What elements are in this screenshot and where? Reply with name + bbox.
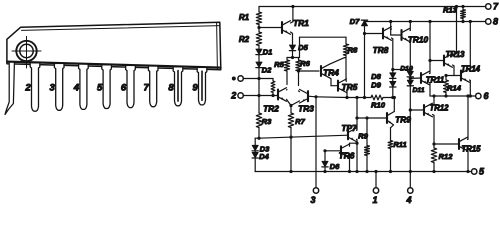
resistor R14 <box>445 76 447 81</box>
wire tail to R7 <box>290 106 292 114</box>
svg-text:R3: R3 <box>262 117 272 126</box>
node TR12 base tap <box>409 108 412 111</box>
wire TR13 base <box>430 60 444 62</box>
wire TR14 collector to rail2 <box>469 70 472 73</box>
diode D5 <box>289 45 295 50</box>
transistor TR12 <box>423 105 425 115</box>
wire TR14 emitter to output row <box>469 79 472 82</box>
wire TR5 collector <box>345 80 348 82</box>
svg-text:TR9: TR9 <box>395 115 411 125</box>
svg-text:R13: R13 <box>443 6 458 15</box>
wire terminal 1 stem <box>375 172 377 188</box>
transistor TR2 <box>277 90 279 100</box>
pin 1 lead <box>5 63 14 115</box>
wire TR6 emitter to ground <box>349 155 351 171</box>
terminal 6 <box>476 93 481 98</box>
svg-text:D4: D4 <box>259 152 269 161</box>
transistor TR3 <box>307 91 309 101</box>
svg-text:1: 1 <box>372 195 377 205</box>
node input row 9 <box>257 77 260 80</box>
mounting hole crosshair horizontal <box>12 50 41 52</box>
resistor R5 <box>286 58 288 61</box>
svg-text:5: 5 <box>479 167 485 177</box>
node bias row left <box>257 137 260 140</box>
svg-text:TP7: TP7 <box>341 123 357 133</box>
wire D11 down to ground rail <box>409 86 411 172</box>
wire R8 to collectors <box>345 56 347 81</box>
transistor TR10 <box>400 30 402 40</box>
svg-text:TR8: TR8 <box>373 45 389 55</box>
wire TP7 emitter column to ground <box>356 138 359 140</box>
wire TR1 base <box>259 27 282 29</box>
wire TR13 emitter to TR14 base <box>453 64 455 67</box>
svg-text:D7: D7 <box>350 17 360 26</box>
svg-text:8: 8 <box>168 83 174 94</box>
wire TR9 collector to node <box>393 98 395 112</box>
svg-text:TR15: TR15 <box>461 145 481 154</box>
resistor R13 <box>462 7 464 10</box>
wire R9 to ground rail <box>366 156 368 172</box>
pin 7 lead <box>148 67 158 107</box>
node TR3 base <box>314 95 317 98</box>
svg-text:TR10: TR10 <box>408 35 429 45</box>
terminal 8 <box>486 19 491 24</box>
wire TP7 collector to bias row <box>356 129 359 131</box>
transistor TR1 <box>281 22 283 33</box>
wire TR11 emitter to output row <box>429 82 432 84</box>
svg-text:TR5: TR5 <box>342 82 358 92</box>
package body SIP-9 outline <box>7 22 221 69</box>
terminal 3 <box>313 188 318 193</box>
wire TR11 base <box>410 77 421 79</box>
wire D5 node to R5 R6 <box>287 57 300 59</box>
resistor R2 <box>256 32 261 46</box>
package right side inner line <box>216 22 219 69</box>
node TR8 collector TR10 base <box>391 34 402 36</box>
svg-text:TR2: TR2 <box>263 104 279 114</box>
pin 6 lead <box>126 66 136 107</box>
resistor R8 <box>343 44 348 56</box>
svg-text:R2: R2 <box>239 35 250 44</box>
wire D6 to ground rail <box>324 167 326 172</box>
wire R1 column stem <box>258 7 260 13</box>
resistor R7 <box>288 113 293 128</box>
pin 3 lead <box>54 64 64 110</box>
resistor R11 <box>388 141 393 149</box>
wire TR11 collector column to rail2 <box>429 72 432 74</box>
svg-text:4: 4 <box>405 195 411 205</box>
wire D3 branch <box>255 137 259 139</box>
wire TR12 collector to output row <box>433 104 435 107</box>
diode D11 <box>407 80 413 85</box>
diode D9 <box>390 81 396 86</box>
wire D7 anode node <box>364 26 366 34</box>
svg-text:R1: R1 <box>239 13 250 22</box>
transistor TR8 <box>382 29 384 39</box>
wire D8 column top <box>392 70 394 73</box>
resistor R9 <box>366 118 368 146</box>
svg-text:7: 7 <box>144 83 150 94</box>
svg-text:D9: D9 <box>371 81 381 90</box>
pin 4 lead <box>79 65 89 110</box>
svg-text:R7: R7 <box>295 117 305 126</box>
wire D4 to ground rail <box>254 158 256 171</box>
transistor TR5 <box>337 81 339 91</box>
svg-text:D2: D2 <box>262 66 272 75</box>
wire R14 to output row <box>445 93 447 97</box>
package bottom edge thick line <box>7 62 221 68</box>
diode D2 <box>256 62 262 67</box>
node TR6 collector tap <box>355 142 358 145</box>
transistor TR11 <box>420 73 422 83</box>
node R7 bias row junction <box>289 136 292 139</box>
svg-text:R9: R9 <box>358 132 368 141</box>
package mounting hole inner circle <box>20 44 33 57</box>
svg-text:R6: R6 <box>300 59 310 68</box>
svg-text:6: 6 <box>121 83 127 94</box>
wire R7 to ground rail <box>290 128 292 172</box>
wire R11 to ground rail <box>390 149 392 172</box>
wire TR6 collector <box>349 143 351 146</box>
wire TR9 base row <box>357 117 387 119</box>
transistor TR14 <box>460 71 462 81</box>
pin 2 lead <box>30 63 40 111</box>
wire TR5 emitter to row 97 <box>346 89 349 92</box>
svg-text:R11: R11 <box>393 140 406 149</box>
wire TR3 base to terminal 3 column <box>308 95 316 98</box>
wire R5 to TR2 collector <box>286 71 288 85</box>
wire D6 column <box>324 151 326 162</box>
package mounting hole outer circle <box>16 41 36 61</box>
resistor R1 <box>256 12 261 25</box>
svg-text:7: 7 <box>493 2 499 12</box>
svg-text:8: 8 <box>493 17 498 27</box>
transistor TR13 <box>443 56 445 66</box>
wire R6 node to TR4 base <box>299 70 320 72</box>
wire D9 to R10 node <box>392 87 394 97</box>
wire bias row slanted to TP7 base <box>259 135 348 138</box>
wire TR15 emitter to ground rail <box>467 148 470 150</box>
resistor R4 unlabeled <box>272 79 274 82</box>
svg-text:9: 9 <box>192 83 198 94</box>
wire R3 to D3 node <box>258 128 260 139</box>
svg-text:5: 5 <box>97 83 103 94</box>
node R6 bottom <box>298 71 300 86</box>
svg-text:D11: D11 <box>413 87 425 94</box>
wire second rail to pin 8 <box>364 21 486 23</box>
wire TR15 collector to output row <box>467 138 470 140</box>
wire D7 node column down <box>364 34 366 98</box>
wire TR6 base to D6 <box>325 150 341 152</box>
pin 5 lead <box>102 65 112 108</box>
node TR13 base tap <box>428 59 431 62</box>
wire bias row to R10 <box>316 96 347 99</box>
node R14 top <box>444 74 447 77</box>
transistor TR6 <box>340 146 342 155</box>
diode D7 zener <box>364 20 366 21</box>
diode D8 <box>390 73 396 78</box>
svg-text:2: 2 <box>24 83 31 94</box>
wire TR8 collector to rail2 <box>390 28 393 31</box>
resistor R10 <box>371 95 383 100</box>
diode D10 <box>407 71 413 76</box>
wire emitters common tail node <box>287 99 292 105</box>
terminal 1 <box>373 188 378 193</box>
wire D3 to D4 <box>254 151 256 152</box>
node TR11 base tap <box>409 77 411 80</box>
wire TR12 base <box>410 109 424 111</box>
wire TR9 emitter to R11 <box>391 125 394 128</box>
transistor TR9 <box>386 113 388 123</box>
wire D8 to D9 <box>392 79 394 82</box>
diode D3 <box>252 145 258 150</box>
wire D1 to D2 <box>258 55 260 62</box>
diode D1 <box>256 49 262 54</box>
svg-text:R8: R8 <box>348 46 358 55</box>
svg-text:D6: D6 <box>330 162 340 171</box>
pin 8 lead <box>173 67 183 105</box>
svg-text:TR3: TR3 <box>298 104 314 114</box>
wire TR4 collector to R8 column <box>330 58 345 65</box>
svg-text:TR4: TR4 <box>323 68 339 78</box>
terminal 7 <box>486 4 491 9</box>
resistor R12 <box>431 148 436 163</box>
wire R8 hook from D5 node <box>299 37 301 57</box>
node TR15 base tap <box>432 142 435 145</box>
terminal 4 <box>408 188 413 193</box>
svg-text:TR6: TR6 <box>339 151 355 161</box>
pin 9 lead <box>197 68 207 105</box>
wire TR10 collector to rail2 <box>409 29 411 31</box>
wire TR1 emitter to D5 <box>291 32 293 33</box>
node R9 tap on TR9 base row <box>355 116 358 119</box>
wire TR12 emitter to R12 <box>433 114 435 117</box>
wire terminal 3 column <box>315 97 317 188</box>
svg-text:R5: R5 <box>274 60 284 69</box>
wire R12 to ground rail <box>433 163 435 172</box>
svg-text:TR11: TR11 <box>426 76 445 85</box>
svg-text:D10: D10 <box>400 66 413 73</box>
wire TR13 collector to top rail <box>453 54 457 57</box>
wire TR4 emitter to TR5 base <box>330 78 332 79</box>
svg-text:6: 6 <box>483 91 489 101</box>
node D7 column ends at bias row <box>363 96 366 99</box>
diode D6 <box>322 161 328 166</box>
node R3 top <box>257 94 260 97</box>
wire output row to terminal 6 <box>430 95 476 97</box>
wire D2 to input node <box>258 68 260 96</box>
resistor R6 <box>298 58 300 61</box>
wire TR15 base <box>434 143 459 145</box>
resistor R3 <box>258 96 260 114</box>
wire D7 node to TR8 base <box>365 33 384 35</box>
svg-text:D1: D1 <box>263 48 273 57</box>
wire terminal 2 to TR2 base <box>243 95 278 97</box>
transistor TR15 <box>458 139 460 149</box>
wire D10 column <box>409 70 411 72</box>
svg-text:TR1: TR1 <box>293 18 309 28</box>
transistor TR4 <box>320 66 322 76</box>
wire terminal 9 to R4 <box>243 78 273 80</box>
wire ground rail <box>255 171 472 173</box>
node R10 right D8 bottom <box>391 96 394 99</box>
wire TR2 collector <box>286 89 289 92</box>
svg-text:R10: R10 <box>371 101 386 110</box>
svg-text:2: 2 <box>230 91 236 101</box>
wire R2 to D1 <box>258 46 260 50</box>
wire row D8 to D10 column <box>393 69 411 71</box>
svg-text:R12: R12 <box>439 152 454 161</box>
svg-text:R14: R14 <box>447 84 462 93</box>
svg-text:4: 4 <box>73 83 80 94</box>
node R4 bottom <box>271 94 274 97</box>
svg-text:3: 3 <box>50 83 56 94</box>
node D5 cathode <box>292 51 294 58</box>
svg-text:3: 3 <box>310 195 315 205</box>
diode D4 <box>252 152 258 157</box>
package top face inner line <box>22 26 220 31</box>
node R1-R2 junction to TR1 base <box>257 26 260 29</box>
mounting hole crosshair vertical <box>26 37 28 69</box>
wire TR10 emitter to D10 column <box>409 39 411 41</box>
wire TR8 emitter to D8 row <box>392 37 393 40</box>
terminal 9 label glyph <box>232 77 236 81</box>
wire top supply rail to pin 7 <box>259 6 486 8</box>
wire terminal 4 stem <box>409 172 411 188</box>
terminal 2 <box>238 93 243 98</box>
terminal 9 <box>238 76 243 81</box>
wire TR1 collector to top rail <box>291 22 293 23</box>
terminal 5 <box>472 169 477 174</box>
transistor TP7 <box>347 130 349 139</box>
wire TR3 collector <box>299 90 300 93</box>
